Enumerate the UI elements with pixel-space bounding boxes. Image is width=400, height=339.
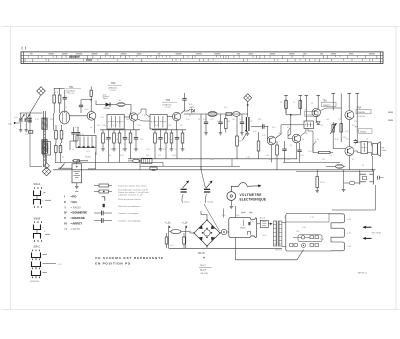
switch SW-C contact 2 [32,262,41,269]
dial scale outline [21,52,383,64]
svg-text:+ L2a: + L2a [165,222,172,224]
svg-text:47: 47 [352,159,354,161]
switch SW-B contact 2 [34,232,41,239]
trimmer detail VC2b [204,181,212,203]
wire osc box to gang [46,155,48,163]
svg-text:CE SCHEMA EST REPRESENTE: CE SCHEMA EST REPRESENTE [95,256,164,260]
svg-text:220: 220 [168,125,171,127]
resistor R10 [225,114,228,133]
pilot lamp circle [221,229,226,234]
ground mid jacks [342,190,346,192]
IF transformer MF2 [150,115,167,130]
resistor R22 [257,132,260,159]
svg-text:ELECTRONIQUE: ELECTRONIQUE [240,198,267,202]
speaker HP [372,142,380,157]
svg-text:2SB54: 2SB54 [360,131,367,133]
driver transformer [304,121,314,129]
svg-text:V: V [64,216,66,220]
svg-text:VC1a: VC1a [184,201,190,203]
trimmer detail VC2a [181,181,189,203]
svg-text:220: 220 [224,107,227,109]
ground IF-1 [101,149,105,151]
tuning gang section diamond top-left [37,87,46,96]
svg-text:TR3: TR3 [166,99,171,102]
wire block to cap [257,223,261,225]
trimmer capacitor VC1a [19,114,25,121]
wire bandswitch leads [70,141,76,150]
arrow to transformer [268,223,270,225]
ground volume [246,133,250,135]
wire T1 base [70,115,88,117]
wire IF-12 to rail [176,149,178,159]
resistor R1 [53,88,56,113]
svg-text:VOLTMETRE: VOLTMETRE [240,193,262,197]
wire power loop to connector [236,238,304,260]
svg-text:47: 47 [122,149,124,151]
position list [64,195,87,231]
wire battery feed [58,167,72,169]
wire bridge top [201,211,207,220]
svg-text:Toutes les valeurs R en ohms: Toutes les valeurs R en ohms [118,184,148,187]
wire T1 emitter down [94,119,96,134]
connector inner corridor line [286,214,329,222]
svg-text:+ L2b: + L2b [182,222,189,224]
switch SW-B contact 1 [34,225,41,232]
ground rail 1 right segment [283,161,340,163]
legend resistor symbol row1 [94,184,112,187]
capacitor C3 [76,127,80,141]
svg-text:0.05: 0.05 [262,135,266,137]
svg-text:0.05: 0.05 [104,139,108,141]
wire block top riser [235,206,237,218]
capacitor C16 right of MF2 [182,93,186,111]
svg-text:50: 50 [62,134,64,136]
resistor IF-4 [118,130,121,149]
svg-text:SE.05.4: SE.05.4 [276,249,283,251]
resistor IF-6 [129,130,132,149]
svg-text:0.01: 0.01 [86,151,90,153]
antenna winding PO [42,118,47,130]
legend junction dot symbol [103,204,105,207]
capacitor C20 [282,141,286,162]
svg-text:A2-C4: A2-C4 [260,216,265,219]
svg-text:=PO: =PO [71,195,78,199]
ground C11 [219,133,223,135]
svg-text:100: 100 [108,155,111,157]
svg-text:RP78L-3: RP78L-3 [358,272,367,274]
resistor R5 [55,143,58,162]
dial scale inner lines [21,54,383,56]
svg-text:(2SA235): (2SA235) [163,103,172,106]
output transformer [361,142,368,154]
svg-text:47: 47 [189,115,191,117]
wire battery bottom [76,183,78,186]
svg-text:100: 100 [140,139,143,141]
dial scale left bracket [22,52,24,64]
wire bridge to lamp [220,231,221,234]
svg-text:50: 50 [284,217,286,219]
svg-text:0.01: 0.01 [210,119,214,121]
jack socket J2 bracket [369,172,373,185]
wire T3 emitter down [176,121,178,130]
ground below battery [75,186,79,188]
dial scale number smudges [30,53,375,55]
capacitor IF-12 [175,130,179,149]
svg-text:50: 50 [190,159,192,161]
legend resistor symbol row2 [94,190,112,193]
wire driver transformer connections [281,125,304,130]
svg-text:0.01: 0.01 [14,117,18,119]
resistor R3 [55,125,58,141]
wire transformer to connector top [282,222,286,224]
svg-text:indication contraire en uF: indication contraire en uF [118,194,143,197]
resistor RP1 [165,233,168,248]
wire FL9 to T2 base [125,105,131,115]
legend capacitor symbol row5 [94,211,112,216]
wire audio mid connections [320,108,341,111]
svg-text:T5A: T5A [323,99,328,102]
legend chassis symbol [102,197,105,201]
bias bus segment 2 [152,129,186,131]
svg-text:= RADIO: = RADIO [71,205,81,209]
svg-text:C-52: C-52 [347,232,351,234]
resistor IF-11 [170,130,173,149]
detector bus wire [197,113,248,115]
capacitor C23 [297,143,301,162]
transistor T2 [129,113,137,121]
svg-text:100: 100 [25,134,28,136]
wire antenna top bus [20,112,43,114]
wire battery top loop [77,161,88,164]
page fold line right [395,27,397,310]
switch SW-A contact 2 [34,198,41,205]
ground IF-11 [170,149,174,151]
wire transformer to speaker [368,142,373,146]
mains arrow upper [364,226,372,228]
wire T4 collector to driver [276,130,281,138]
voltmeter circle [227,192,236,201]
page fold line left [10,27,12,310]
oval resistor left of box [133,159,140,162]
transistor T4 first AF [267,136,276,145]
svg-text:TR1: TR1 [69,86,74,89]
resistor R30 below rail [316,170,319,190]
svg-text:SECTEUR: SECTEUR [372,233,382,235]
wire T3 to detector [184,113,197,115]
ground rail short [128,158,297,160]
transistor T7 [345,147,354,156]
svg-text:Condens. ceramique: Condens. ceramique [118,212,139,215]
vibrator block [229,218,257,238]
svg-text:TR2: TR2 [111,82,116,85]
wire MF1 bottom down [109,128,111,131]
wire detector left drop [200,114,202,170]
coil oval 2 on detector bus [233,112,241,117]
bias bus segment 1 [100,129,140,131]
volume wiper arrow [243,134,247,141]
transistor T4b driver [292,134,301,143]
svg-text:47: 47 [287,127,289,129]
wire IF-2 to rail [108,149,110,163]
detector coil oval [208,112,217,117]
wire C17 junction [81,99,91,101]
thermistor TH1 [330,122,336,135]
capacitor marks right of jack [378,176,380,180]
wire rail through oval [128,160,133,162]
oscillator transformer box [43,142,51,156]
svg-text:(TA-00B): (TA-00B) [200,272,208,275]
wire driver to T4b base [288,138,292,140]
resistor R4 [60,125,63,141]
svg-text:0.05: 0.05 [186,119,190,121]
svg-text:(2SB54): (2SB54) [358,116,366,118]
svg-text:Point de raccordement: Point de raccordement [118,205,140,208]
resistor R6 [59,143,62,162]
svg-text:EN POSITION PO: EN POSITION PO [95,262,131,266]
legend capacitor symbol row6 [94,218,112,223]
IF transformer MF1 [107,115,124,130]
wire arrows to prongs [347,219,357,227]
wire bridge left [184,232,195,233]
capacitor IF-7 [134,130,138,149]
diode D3 [317,122,320,125]
svg-text:220: 220 [322,159,325,161]
component value labels [14,92,369,247]
svg-text:220: 220 [354,121,357,123]
switch contact on battery feed [61,164,65,169]
svg-text:Condens. electrolytique: Condens. electrolytique [118,219,142,222]
svg-text:=ARRET: =ARRET [71,222,83,226]
transistor T1 [87,111,96,120]
wire T4 emitter [271,145,273,163]
svg-text:470: 470 [64,107,67,109]
svg-text:=GO: =GO [71,200,78,204]
trimmer capacitor CA2 [24,114,30,121]
wire L2a drop [168,226,170,249]
svg-text:TA-007: TA-007 [200,269,208,272]
svg-text:C-54: C-54 [347,246,351,248]
coupling capacitor C19 [259,124,269,128]
switch SW-A pin dots [34,187,35,189]
bandswitch contact marks [78,146,94,148]
ground below VC1a [19,130,23,132]
block top tiny labels [241,212,246,213]
capacitor C2 [71,127,75,141]
wire IF-8 to rail [154,149,156,159]
oscillator coil L2 (oval can) [59,111,69,124]
svg-text:(2SA12C): (2SA12C) [108,86,117,89]
bridge rectifier [193,219,220,246]
svg-text:A2: A2 [119,99,121,102]
capacitor C11 [218,114,222,133]
resistor R25 [276,141,279,170]
svg-text:III: III [64,205,66,209]
svg-text:470: 470 [163,149,166,151]
connector internal parts [290,236,319,248]
wire voltmeter probe with hump [231,183,256,192]
capacitor IF-2 [106,130,110,149]
probe arrow [258,184,261,187]
wire L2b drop [185,226,187,249]
svg-text:220: 220 [266,155,269,157]
wire front-end verticals [53,113,55,131]
jack socket J1 [360,172,367,185]
wire MF2 bottom down [152,128,154,131]
mains arrow lower [364,237,372,239]
wire cap to T4 base [266,127,268,141]
electrolytic cap on drop [28,118,32,122]
svg-text:25u: 25u [346,138,349,140]
svg-text:470: 470 [352,125,355,127]
wire bridge bottom [206,246,208,248]
volume potentiometer [246,114,249,133]
wire second riser [222,209,224,218]
svg-text:2SB438: 2SB438 [358,112,366,114]
dial scale dark legend text [69,56,79,58]
wire T1 collector up [90,100,92,112]
wire ground stub [344,170,350,183]
band switch section box [76,136,96,148]
capacitor C12 [240,114,244,133]
ferrite rod antenna with windings [43,111,45,167]
rail mid stub right [326,165,336,167]
svg-text:TA-07: TA-07 [200,264,207,267]
wire T2 emitter down [133,121,135,130]
resistor on T1 collector feed [90,87,92,100]
ground C12 [240,133,244,135]
svg-text:C-50: C-50 [347,219,351,221]
fuse on L2a line [169,230,184,234]
svg-text:0.01: 0.01 [134,149,138,151]
wire D1 chain [96,101,106,105]
switch SW-C contact 1 [32,253,41,260]
resistor on detector bus [226,113,232,116]
svg-text:2SB475: 2SB475 [323,105,331,107]
switch SW-A contact 1 [34,191,41,198]
terminal marks top audio [284,95,288,97]
transistor T5 [312,108,320,116]
svg-text:50: 50 [90,127,92,129]
resistor IF-1 [102,130,105,149]
wire MF1 to T2 [124,116,129,118]
svg-text:IV: IV [64,211,67,215]
tiny corner mark [30,281,39,283]
ground rail 2 [53,169,376,171]
wire R20 R21 join [286,114,291,116]
dial scale tick marks [25,55,377,62]
ground IF-5 [123,149,127,151]
svg-text:=MARCHE: =MARCHE [71,216,85,220]
ground rail 1 [55,161,163,163]
wire T5 emitter [315,117,317,123]
resistor IF-13 [181,130,184,149]
dial scale right bracket [380,52,382,64]
ground C10 [204,133,208,135]
resistor R11 below oval [236,116,239,159]
wire jack to connector right feed [332,185,376,210]
transistor T3 [172,112,180,120]
svg-text:VI: VI [64,222,67,226]
mains transformer [273,221,282,247]
wire lamp to block [227,231,229,233]
connector outer shell [286,214,345,252]
wire output transformer [357,133,361,142]
ground IF-13 [181,149,185,151]
coil FL9 after D1 [117,103,125,107]
transistor T6 [345,111,354,120]
capacitor IF-5 [123,130,127,149]
wire speaker drop to rail [372,156,374,170]
capacitor C10 [204,114,208,133]
svg-text:100: 100 [188,231,191,233]
tuning gang hatched diamond [42,167,51,176]
svg-text:Sauf indication contraire 0,5: Sauf indication contraire 0,5 W [118,188,149,191]
resistor R20 [285,99,288,115]
wire jacks feed [359,170,361,172]
wire left vertical drop [30,113,42,167]
svg-text:100: 100 [320,125,323,127]
power bottom rail [169,247,282,249]
svg-text:0.05: 0.05 [155,125,159,127]
resistor R2 [58,88,61,113]
wire audio top feeds [285,96,287,114]
ground IF-3 [112,149,116,151]
svg-text:SW-C: SW-C [34,244,41,248]
svg-text:0.05: 0.05 [300,155,304,157]
tuning gang small diamond [44,163,50,169]
svg-text:0.05: 0.05 [345,131,349,133]
svg-text:C-28: C-28 [292,115,296,117]
wire voltmeter down [230,200,232,206]
svg-text:VC1b: VC1b [208,201,214,203]
resistor IF-3 [113,130,116,149]
right edge tiny marks [388,112,393,114]
rail stub below jacks [296,170,374,172]
mechanical link dashed [44,131,46,163]
switch SW-C pin dots [32,250,33,252]
battery minus ticks [75,191,78,193]
svg-text:0.01: 0.01 [170,245,174,247]
wire volume to audio [251,126,259,128]
resistor R24 horizontal [313,151,333,153]
svg-text:SW-B: SW-B [34,216,41,220]
wire T3 collector [181,109,191,114]
resistor fuse at battery top [72,160,81,162]
oval component on mid rail [336,164,344,168]
ground R30 [315,190,319,192]
svg-text:+ 5 V: + 5 V [57,264,62,266]
oval component B1 on rail2 [150,166,158,170]
wire T2 to MF2 [138,109,150,117]
wire join down [288,115,291,136]
wire IF-4 to rail [119,149,121,163]
wire MF2 to T3 [167,116,172,118]
svg-text:50: 50 [290,145,292,147]
svg-text:470: 470 [272,127,275,129]
capacitor C1 [63,90,67,113]
resistor IF-10 [165,130,168,149]
svg-text:=SONNERIE: =SONNERIE [71,211,88,215]
svg-text:100: 100 [232,119,235,121]
svg-text:OC45D: OC45D [165,107,172,109]
ground below CA2 [24,130,28,132]
wire transformer to connector bottom [282,246,286,248]
svg-text:VII: VII [64,227,67,231]
svg-text:50: 50 [175,149,177,151]
page border top [1,26,399,28]
wire IF-6 to rail [130,149,132,159]
svg-text:470: 470 [158,155,161,157]
